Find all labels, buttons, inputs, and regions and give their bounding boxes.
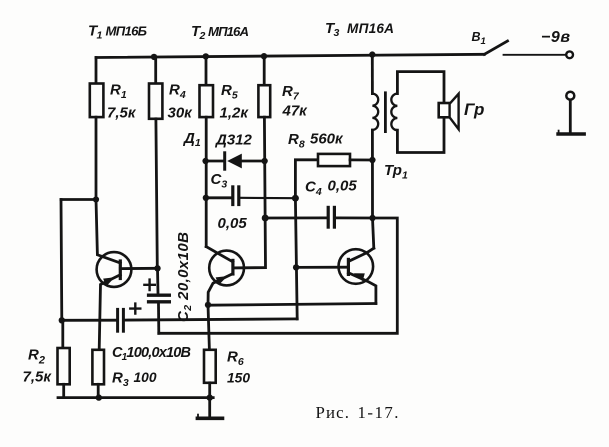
svg-text:1: 1 (97, 30, 103, 42)
resistor R2 (61, 320, 64, 348)
resistor R8 (295, 160, 318, 198)
svg-text:Рис.: Рис. (316, 403, 350, 422)
svg-text:R7: R7 (282, 83, 300, 103)
ground (208, 398, 211, 417)
switch B1 (484, 41, 507, 54)
node C4 left (262, 215, 269, 222)
node R8 right (369, 157, 375, 163)
svg-text:3: 3 (334, 27, 340, 39)
svg-text:Д1: Д1 (182, 130, 201, 149)
diode D1 (206, 160, 223, 163)
wire R1 to T1 collector (96, 200, 120, 264)
wire C4 right to long return (159, 218, 397, 333)
speaker Gr (439, 103, 451, 117)
svg-text:С1100,0х10В: С1100,0х10В (112, 345, 191, 363)
node R3 bottom (96, 394, 102, 400)
node C3 right on R8 drop (292, 195, 299, 202)
wire emitter rail to T3 (208, 304, 376, 306)
wire T2 emitter down to R6 (208, 305, 209, 350)
transistor T1 (97, 252, 132, 287)
plus sign C1 (130, 304, 140, 314)
svg-text:2: 2 (199, 30, 206, 42)
plus sign C2 (144, 280, 154, 290)
resistor R4 (154, 57, 157, 84)
capacitor C1 (62, 319, 117, 322)
transistor T2 (209, 251, 244, 286)
wire R7 down to T2 base (233, 117, 266, 268)
node junction T1 base / R4 / C2 (154, 265, 160, 271)
svg-text:1-17.: 1-17. (358, 403, 399, 422)
svg-text:−9в: −9в (541, 29, 570, 46)
svg-text:30к: 30к (168, 104, 194, 121)
svg-text:R6: R6 (227, 348, 244, 368)
svg-text:Тр1: Тр1 (384, 162, 408, 182)
svg-text:Д312: Д312 (214, 131, 253, 148)
svg-text:МП16А: МП16А (347, 21, 394, 36)
svg-text:R3: R3 (112, 370, 129, 390)
svg-text:7,5к: 7,5к (107, 104, 137, 121)
resistor R5 (205, 56, 208, 85)
ground bar right terminal (558, 132, 584, 135)
node R7 top (261, 53, 267, 59)
svg-text:С3: С3 (211, 171, 228, 191)
node T3 base (293, 264, 299, 270)
node C4 right (369, 215, 375, 221)
node junction R1/left branch (93, 196, 99, 202)
wire left branch horizontal (61, 198, 96, 201)
wire switch to terminal (504, 54, 566, 56)
svg-text:С2 20,0х10В: С2 20,0х10В (175, 232, 194, 322)
capacitor C2 (156, 268, 159, 294)
svg-text:Гр: Гр (464, 100, 484, 119)
wire T3 base (296, 266, 348, 269)
node transformer top (369, 51, 375, 57)
transistor T3 (339, 249, 374, 284)
terminal -9V bottom (566, 92, 574, 100)
svg-text:0,05: 0,05 (218, 215, 248, 232)
wire terminal down (569, 100, 572, 133)
terminal -9V top (566, 51, 573, 58)
svg-text:R4: R4 (169, 82, 186, 102)
svg-text:В1: В1 (472, 30, 486, 47)
node C3 left (203, 195, 209, 201)
resistor R7 (263, 56, 266, 85)
svg-text:С4: С4 (305, 178, 322, 198)
resistor R6 (204, 350, 216, 383)
speaker loop (397, 72, 444, 103)
wire R8 drop to T3 base / emitter line (295, 198, 297, 319)
svg-text:МП16Б: МП16Б (106, 24, 148, 39)
svg-text:100: 100 (134, 370, 157, 385)
svg-text:150: 150 (227, 371, 250, 386)
svg-text:R2: R2 (28, 347, 45, 367)
node R6 bottom (207, 394, 213, 400)
svg-text:1,2к: 1,2к (220, 104, 250, 121)
wire left branch vertical (60, 200, 64, 321)
transformer Tr1 (371, 55, 374, 94)
resistor R3 (92, 350, 104, 385)
svg-text:7,5к: 7,5к (23, 369, 53, 386)
svg-text:R1: R1 (110, 82, 127, 102)
svg-text:0,05: 0,05 (328, 178, 358, 195)
capacitor C3 (206, 196, 231, 199)
resistor R1 (95, 58, 98, 84)
wire bottom rail (58, 396, 213, 399)
svg-text:R8: R8 (288, 131, 305, 151)
svg-text:МП16А: МП16А (208, 24, 249, 39)
node R5 top (203, 53, 209, 59)
wire top supply rail (96, 54, 484, 57)
node diode right (261, 158, 267, 164)
svg-text:560к: 560к (310, 131, 344, 148)
node T2 emitter (205, 302, 211, 308)
node diode left (202, 158, 208, 164)
svg-text:47к: 47к (282, 103, 309, 120)
node junction left/R2/C1 (59, 317, 65, 323)
capacitor C4 (265, 216, 326, 219)
svg-text:R5: R5 (221, 82, 238, 102)
node R4 top (151, 54, 157, 60)
